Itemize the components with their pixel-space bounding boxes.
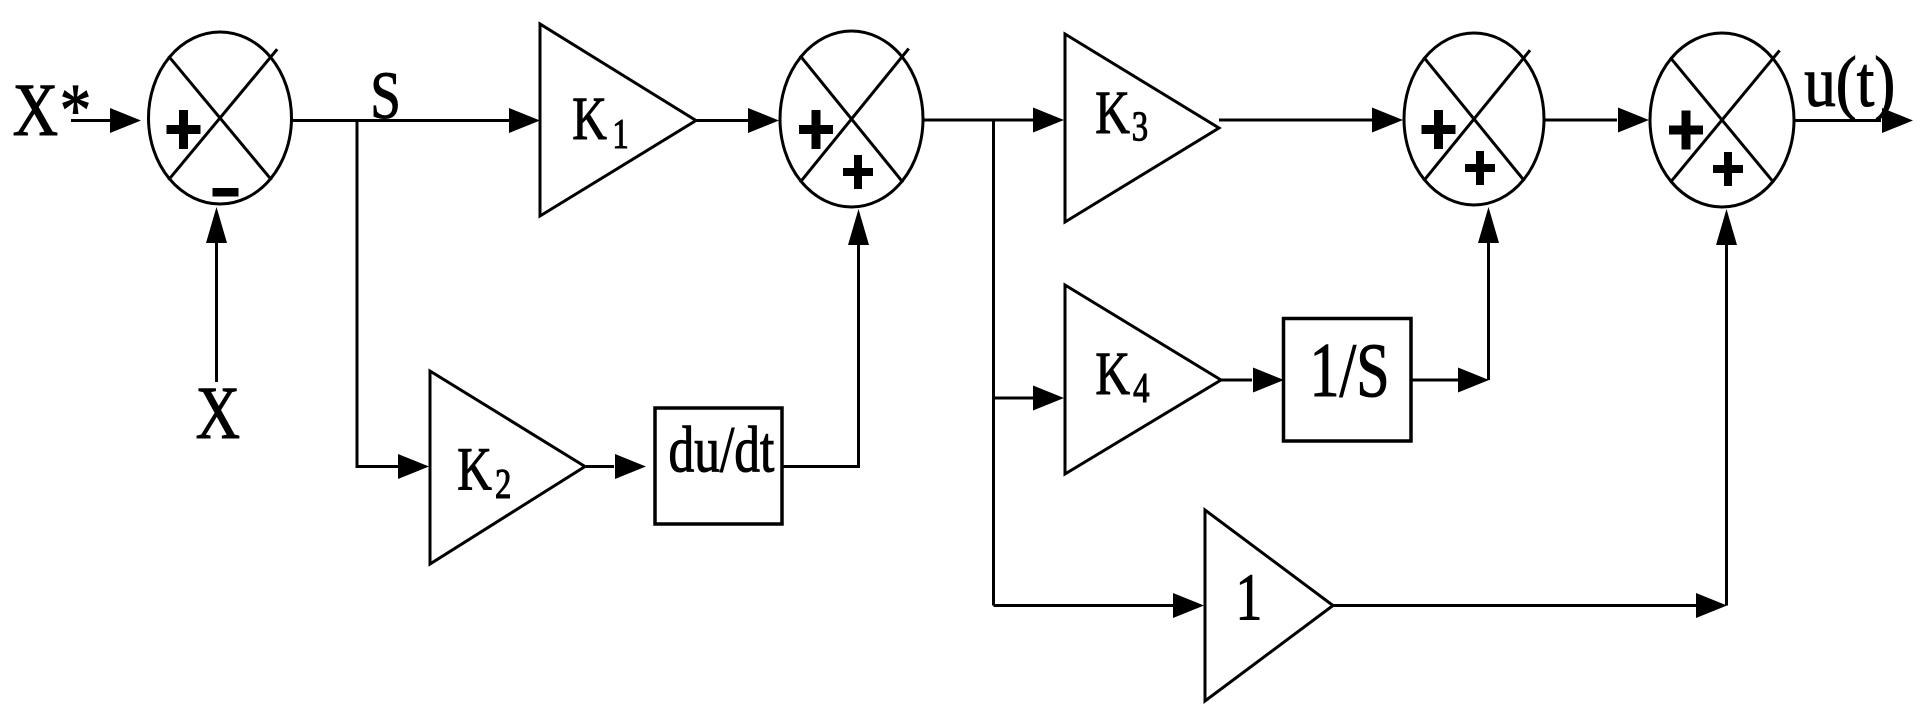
wire S4 output u(t) xyxy=(1794,119,1881,122)
wire gain 1 output to corner xyxy=(1333,604,1696,607)
summing junction S4 xyxy=(1650,33,1794,207)
summing junction S1 xyxy=(149,32,292,204)
plus sign left in S4 xyxy=(1669,111,1703,150)
summing junction S2 xyxy=(780,31,923,207)
wire branch node down xyxy=(992,120,995,606)
minus sign in S1 xyxy=(213,188,239,197)
svg-text:X: X xyxy=(196,371,240,454)
wire du/dt up into S2 xyxy=(782,244,859,467)
arrowhead into S4 xyxy=(1618,108,1649,133)
arrowhead into S2 bottom xyxy=(848,209,869,245)
label X* xyxy=(13,68,92,151)
svg-text:du/dt: du/dt xyxy=(669,412,775,486)
label u(t) xyxy=(1804,41,1895,122)
wire 1/S output to corner xyxy=(1411,379,1458,382)
arrowhead output xyxy=(1882,108,1913,133)
plus sign bottom in S3 xyxy=(1465,151,1495,185)
wire K4 to 1/S xyxy=(1221,379,1252,382)
plus sign bottom in S4 xyxy=(1713,152,1743,186)
plus sign bottom in S2 xyxy=(843,155,873,189)
wire corner up into S3 xyxy=(1487,243,1490,380)
summing junction S3 xyxy=(1404,33,1544,205)
gain K4 xyxy=(1065,285,1221,474)
wire S1 output to K1 xyxy=(292,119,513,122)
arrowhead into K4 xyxy=(1033,386,1064,411)
arrowhead into S1 bottom xyxy=(206,207,227,243)
wire S3 output to S4 xyxy=(1544,119,1617,122)
arrowhead into S4 bottom xyxy=(1716,209,1737,245)
gain K1 xyxy=(540,24,696,216)
wire branch to gain 1 xyxy=(994,604,1175,607)
svg-text:u(t): u(t) xyxy=(1804,41,1895,122)
label 1/S xyxy=(1310,327,1390,413)
label K1 xyxy=(572,84,628,157)
wire K2 to du/dt xyxy=(586,465,614,468)
wire K3 output to S3 xyxy=(1219,119,1372,122)
wire branch to K4 xyxy=(994,397,1034,400)
arrowhead into K3 xyxy=(1033,108,1064,133)
label 1 xyxy=(1236,561,1263,635)
arrowhead into S2 xyxy=(748,108,779,133)
arrowhead into K2 xyxy=(398,454,429,479)
svg-text:1: 1 xyxy=(1236,561,1263,635)
arrowhead into S3 bottom xyxy=(1478,207,1499,243)
label K2 xyxy=(457,435,511,508)
node S label xyxy=(370,59,401,134)
gain 1 xyxy=(1205,510,1333,701)
arrowhead at corner xyxy=(1696,593,1727,618)
arrowhead into S3 xyxy=(1372,108,1403,133)
wire X* input xyxy=(71,119,113,122)
plus sign in S1 xyxy=(167,110,201,149)
wire S2 output to K3 xyxy=(923,119,1034,122)
label K4 xyxy=(1095,339,1149,411)
svg-text:X*: X* xyxy=(13,68,92,151)
label du/dt xyxy=(669,412,775,486)
gain K3 xyxy=(1065,34,1219,222)
wire X feedback up xyxy=(215,242,218,382)
arrowhead into 1/S xyxy=(1253,368,1284,393)
wire S branch down to K2 xyxy=(357,121,398,467)
label X xyxy=(196,371,240,454)
block du/dt xyxy=(655,408,782,524)
gain K2 xyxy=(430,371,585,564)
svg-text:S: S xyxy=(370,59,401,134)
label K3 xyxy=(1095,78,1148,150)
plus sign left in S3 xyxy=(1422,110,1456,149)
block 1/S xyxy=(1284,319,1412,442)
arrowhead at corner xyxy=(1458,368,1489,393)
arrowhead into summing junction S1 xyxy=(110,108,141,133)
arrowhead into K1 xyxy=(509,108,540,133)
wire K1 output to S2 xyxy=(696,119,748,122)
plus sign left in S2 xyxy=(799,110,833,149)
arrowhead into du/dt xyxy=(615,454,646,479)
svg-text:1/S: 1/S xyxy=(1310,327,1390,413)
wire corner up into S4 xyxy=(1725,244,1728,606)
arrowhead into gain 1 xyxy=(1173,593,1204,618)
